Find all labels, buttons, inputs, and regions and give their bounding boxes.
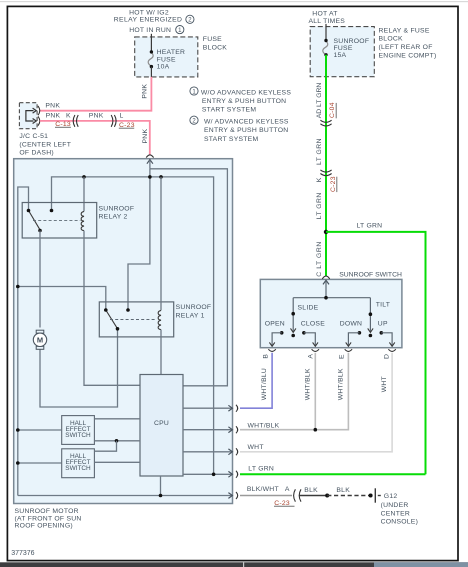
svg-text:E: E [339,354,346,359]
top window edge [0,1,468,2]
svg-text:SUNROOF SWITCH: SUNROOF SWITCH [339,271,402,278]
note 1 W/O ADVANCED KEYLESS [190,87,198,95]
svg-text:FUSE: FUSE [203,36,222,43]
relay 2 armature dashed link [33,220,81,222]
svg-text:ENGINE COMPT): ENGINE COMPT) [379,52,437,59]
wire fuse to box edge [150,67,152,77]
connector entry PNK into motor box [146,155,153,158]
svg-text:(UNDER: (UNDER [381,502,409,509]
svg-text:DOWN: DOWN [340,320,363,327]
up contact to pin D [380,331,384,335]
svg-text:PNK: PNK [45,103,60,110]
wire BLK solid [300,495,328,497]
svg-text:BLOCK: BLOCK [203,45,228,52]
svg-text:RELAY ENERGIZED: RELAY ENERGIZED [114,17,182,24]
svg-text:SUNROOF: SUNROOF [99,205,135,212]
connector bumps below switch [268,349,395,351]
svg-text:AD LT GRN: AD LT GRN [316,83,323,119]
CPU box [140,375,183,477]
node on bus at x150 [148,175,152,179]
svg-text:START SYSTEM: START SYSTEM [204,136,258,143]
sunroof switch box [260,279,402,347]
svg-text:RELAY 2: RELAY 2 [99,214,128,221]
svg-text:SUNROOF MOTOR: SUNROOF MOTOR [15,508,79,515]
svg-text:CPU: CPU [154,420,169,427]
relay 2 switch arm [29,211,40,230]
svg-text:A: A [307,354,314,359]
svg-text:W/ ADVANCED KEYLESS: W/ ADVANCED KEYLESS [204,118,289,125]
svg-text:10A: 10A [157,64,170,71]
wire relay2 coil to CPU [84,231,140,386]
svg-text:HOT AT: HOT AT [312,11,337,18]
svg-text:ROOF OPENING): ROOF OPENING) [15,523,73,530]
svg-text:UP: UP [378,320,388,327]
wire CPU bottom to ground bus [160,476,162,496]
fuse block (dashed box) [135,37,198,77]
wire relay2 common riser [18,187,29,496]
svg-text:C LT GRN: C LT GRN [316,241,323,277]
svg-text:SUNROOF: SUNROOF [176,304,212,311]
svg-text:C-23: C-23 [330,176,337,192]
green wire LT GRN from fuse to sunroof switch [325,55,327,276]
wire relay1 coil to CPU top [160,330,162,375]
svg-text:PNK: PNK [46,113,61,120]
sunroof fuse F2 [323,41,328,55]
svg-text:BLOCK: BLOCK [379,36,404,43]
svg-text:START SYSTEM: START SYSTEM [202,106,256,113]
svg-text:PNK: PNK [142,129,149,144]
svg-text:FUSE: FUSE [157,56,176,63]
wire relay1 common riser to left bus [18,287,106,311]
svg-text:TILT: TILT [376,302,390,309]
svg-text:WHT/BLK: WHT/BLK [304,368,311,400]
wire CPU to LT GRN exit [183,473,233,475]
wire hall2 to CPU [94,461,140,463]
wire WHT pin D to motor box [240,353,392,452]
relay & fuse block (dashed box) [310,27,374,77]
relay 1 switch arm [106,311,117,329]
svg-text:ENTRY & PUSH BUTTON: ENTRY & PUSH BUTTON [204,127,288,134]
svg-text:B: B [262,354,269,359]
bottom toolbar [0,562,468,567]
exit connector arrows on right edge [228,405,232,498]
svg-text:(LEFT REAR OF: (LEFT REAR OF [379,44,433,51]
switch feed bus [293,297,370,299]
svg-text:WHT/BLK: WHT/BLK [337,368,344,400]
sunroof relay 2 [22,203,97,239]
wire left bus to hall2 [18,462,62,464]
node on bus at x161 [159,175,163,179]
motor M [36,330,44,333]
relay 2 coil [81,211,84,230]
wire LT GRN into motor box [240,473,426,475]
wire into sunroof fuse [325,24,327,41]
svg-text:HOT W/ IG2: HOT W/ IG2 [129,9,169,16]
svg-text:BLK: BLK [336,487,350,494]
wire into heater fuse [150,34,152,52]
wire CPU to WHT exit [183,451,233,453]
note 2 W/ ADVANCED KEYLESS [190,116,198,124]
svg-text:LT GRN: LT GRN [357,222,383,229]
hall effect switch 1 [62,416,95,445]
svg-text:15A: 15A [334,52,347,59]
svg-text:M: M [37,336,43,345]
sunroof relay 1 [99,302,173,337]
svg-text:W/O ADVANCED KEYLESS: W/O ADVANCED KEYLESS [201,89,291,96]
svg-text:LT GRN: LT GRN [248,465,274,472]
ground bus along bottom [18,495,233,497]
relay 1 contacts [104,308,108,312]
svg-text:K: K [316,177,323,182]
wire WHT/BLK pin E to motor box [240,353,348,430]
wire WHT/BLK pin A down [314,353,316,430]
svg-text:ALL TIMES: ALL TIMES [308,18,345,25]
wire main feed bus [52,177,214,474]
down contact to pin E [358,331,362,335]
connector C-23 [111,115,113,127]
svg-text:HEATER: HEATER [157,49,186,56]
svg-text:RELAY & FUSE: RELAY & FUSE [379,27,430,34]
wire CPU to WHT/BLK exit [183,429,233,431]
wire BLK dashed [327,495,370,497]
hall effect switch 2 [62,449,95,478]
svg-text:K: K [66,113,71,120]
wire relay1 coil feed [160,177,162,311]
svg-text:D: D [383,354,390,359]
junction node on green wire [324,230,328,234]
svg-text:LT GRN: LT GRN [316,192,323,219]
wire BLK/WHT ground from motor box [240,495,292,497]
svg-text:WHT/BLU: WHT/BLU [261,368,268,400]
svg-text:OPEN: OPEN [265,320,285,327]
node left bus / relay1 common [16,285,20,289]
svg-text:L: L [120,113,124,120]
svg-text:CONSOLE): CONSOLE) [381,518,419,525]
svg-text:FUSE: FUSE [334,45,353,52]
heater fuse F1 [148,52,153,66]
svg-text:SUNROOF: SUNROOF [334,38,370,45]
svg-text:BLK/WHT: BLK/WHT [247,486,279,493]
svg-text:OF DASH): OF DASH) [19,149,53,156]
node on bus at x84 [82,175,86,179]
connector C-23 on green wire [320,170,331,172]
wire left bus to hall1 [18,429,62,431]
svg-text:(CENTER LEFT: (CENTER LEFT [19,141,71,148]
close contact to pin A [302,331,306,335]
note marker 1 [176,26,184,34]
svg-text:LT GRN: LT GRN [316,138,323,165]
svg-text:PNK: PNK [141,84,148,99]
svg-text:377376: 377376 [11,550,34,557]
svg-text:WHT: WHT [248,444,264,451]
svg-text:CENTER: CENTER [381,510,410,517]
note marker 2 [186,15,194,23]
svg-text:G12: G12 [384,493,398,500]
wire hall1/hall2 shared to CPU [94,440,140,442]
svg-text:C-13: C-13 [55,121,71,128]
svg-text:(AT FRONT OF SUN: (AT FRONT OF SUN [15,515,82,522]
wire feed down to relay 1 contact [128,169,150,310]
svg-text:J/C C-51: J/C C-51 [19,133,48,140]
svg-text:HOT IN RUN: HOT IN RUN [129,27,171,34]
wire feed branch to CPU (right) [150,169,228,386]
svg-text:BLK: BLK [304,487,318,494]
sunroof motor assembly box [14,159,233,504]
green wire branch to right [326,232,426,474]
svg-text:WHT/BLK: WHT/BLK [248,422,280,429]
pink wire PNK from fuse down to J/C [40,77,152,111]
pink wire PNK from J/C through C-13 C-23 to sunroof motor [40,121,150,155]
svg-text:ENTRY & PUSH BUTTON: ENTRY & PUSH BUTTON [202,98,286,105]
slide switch common [292,298,294,332]
relay 1 coil [158,310,161,329]
wire hall1 to CPU [94,418,140,420]
tilt switch common [369,298,371,332]
ground G12 [374,488,376,502]
wire CPU to WHT/BLU exit [183,407,233,409]
relay 2 contacts [27,209,31,213]
wire relay2 coil feed [83,177,85,212]
relay 1 armature dashed link [110,319,156,321]
wire WHT/BLU pin B to motor box [240,353,272,408]
svg-text:SWITCH: SWITCH [65,432,91,439]
svg-text:CLOSE: CLOSE [301,320,326,327]
svg-text:RELAY 1: RELAY 1 [176,312,205,319]
wire relay2 switch to motor and relay1 lower contact [39,231,41,328]
svg-text:PNK: PNK [89,113,104,120]
open contact to pin B [280,331,284,335]
svg-text:WHT: WHT [381,376,388,392]
junction connector J/C C-51 [19,103,37,129]
svg-text:A: A [285,486,290,493]
svg-text:C-04: C-04 [329,102,336,118]
connector C-23 on ground wire [294,489,296,501]
svg-text:SLIDE: SLIDE [298,304,319,311]
connector entry LT GRN into switch [322,276,329,279]
svg-text:SWITCH: SWITCH [65,465,91,472]
